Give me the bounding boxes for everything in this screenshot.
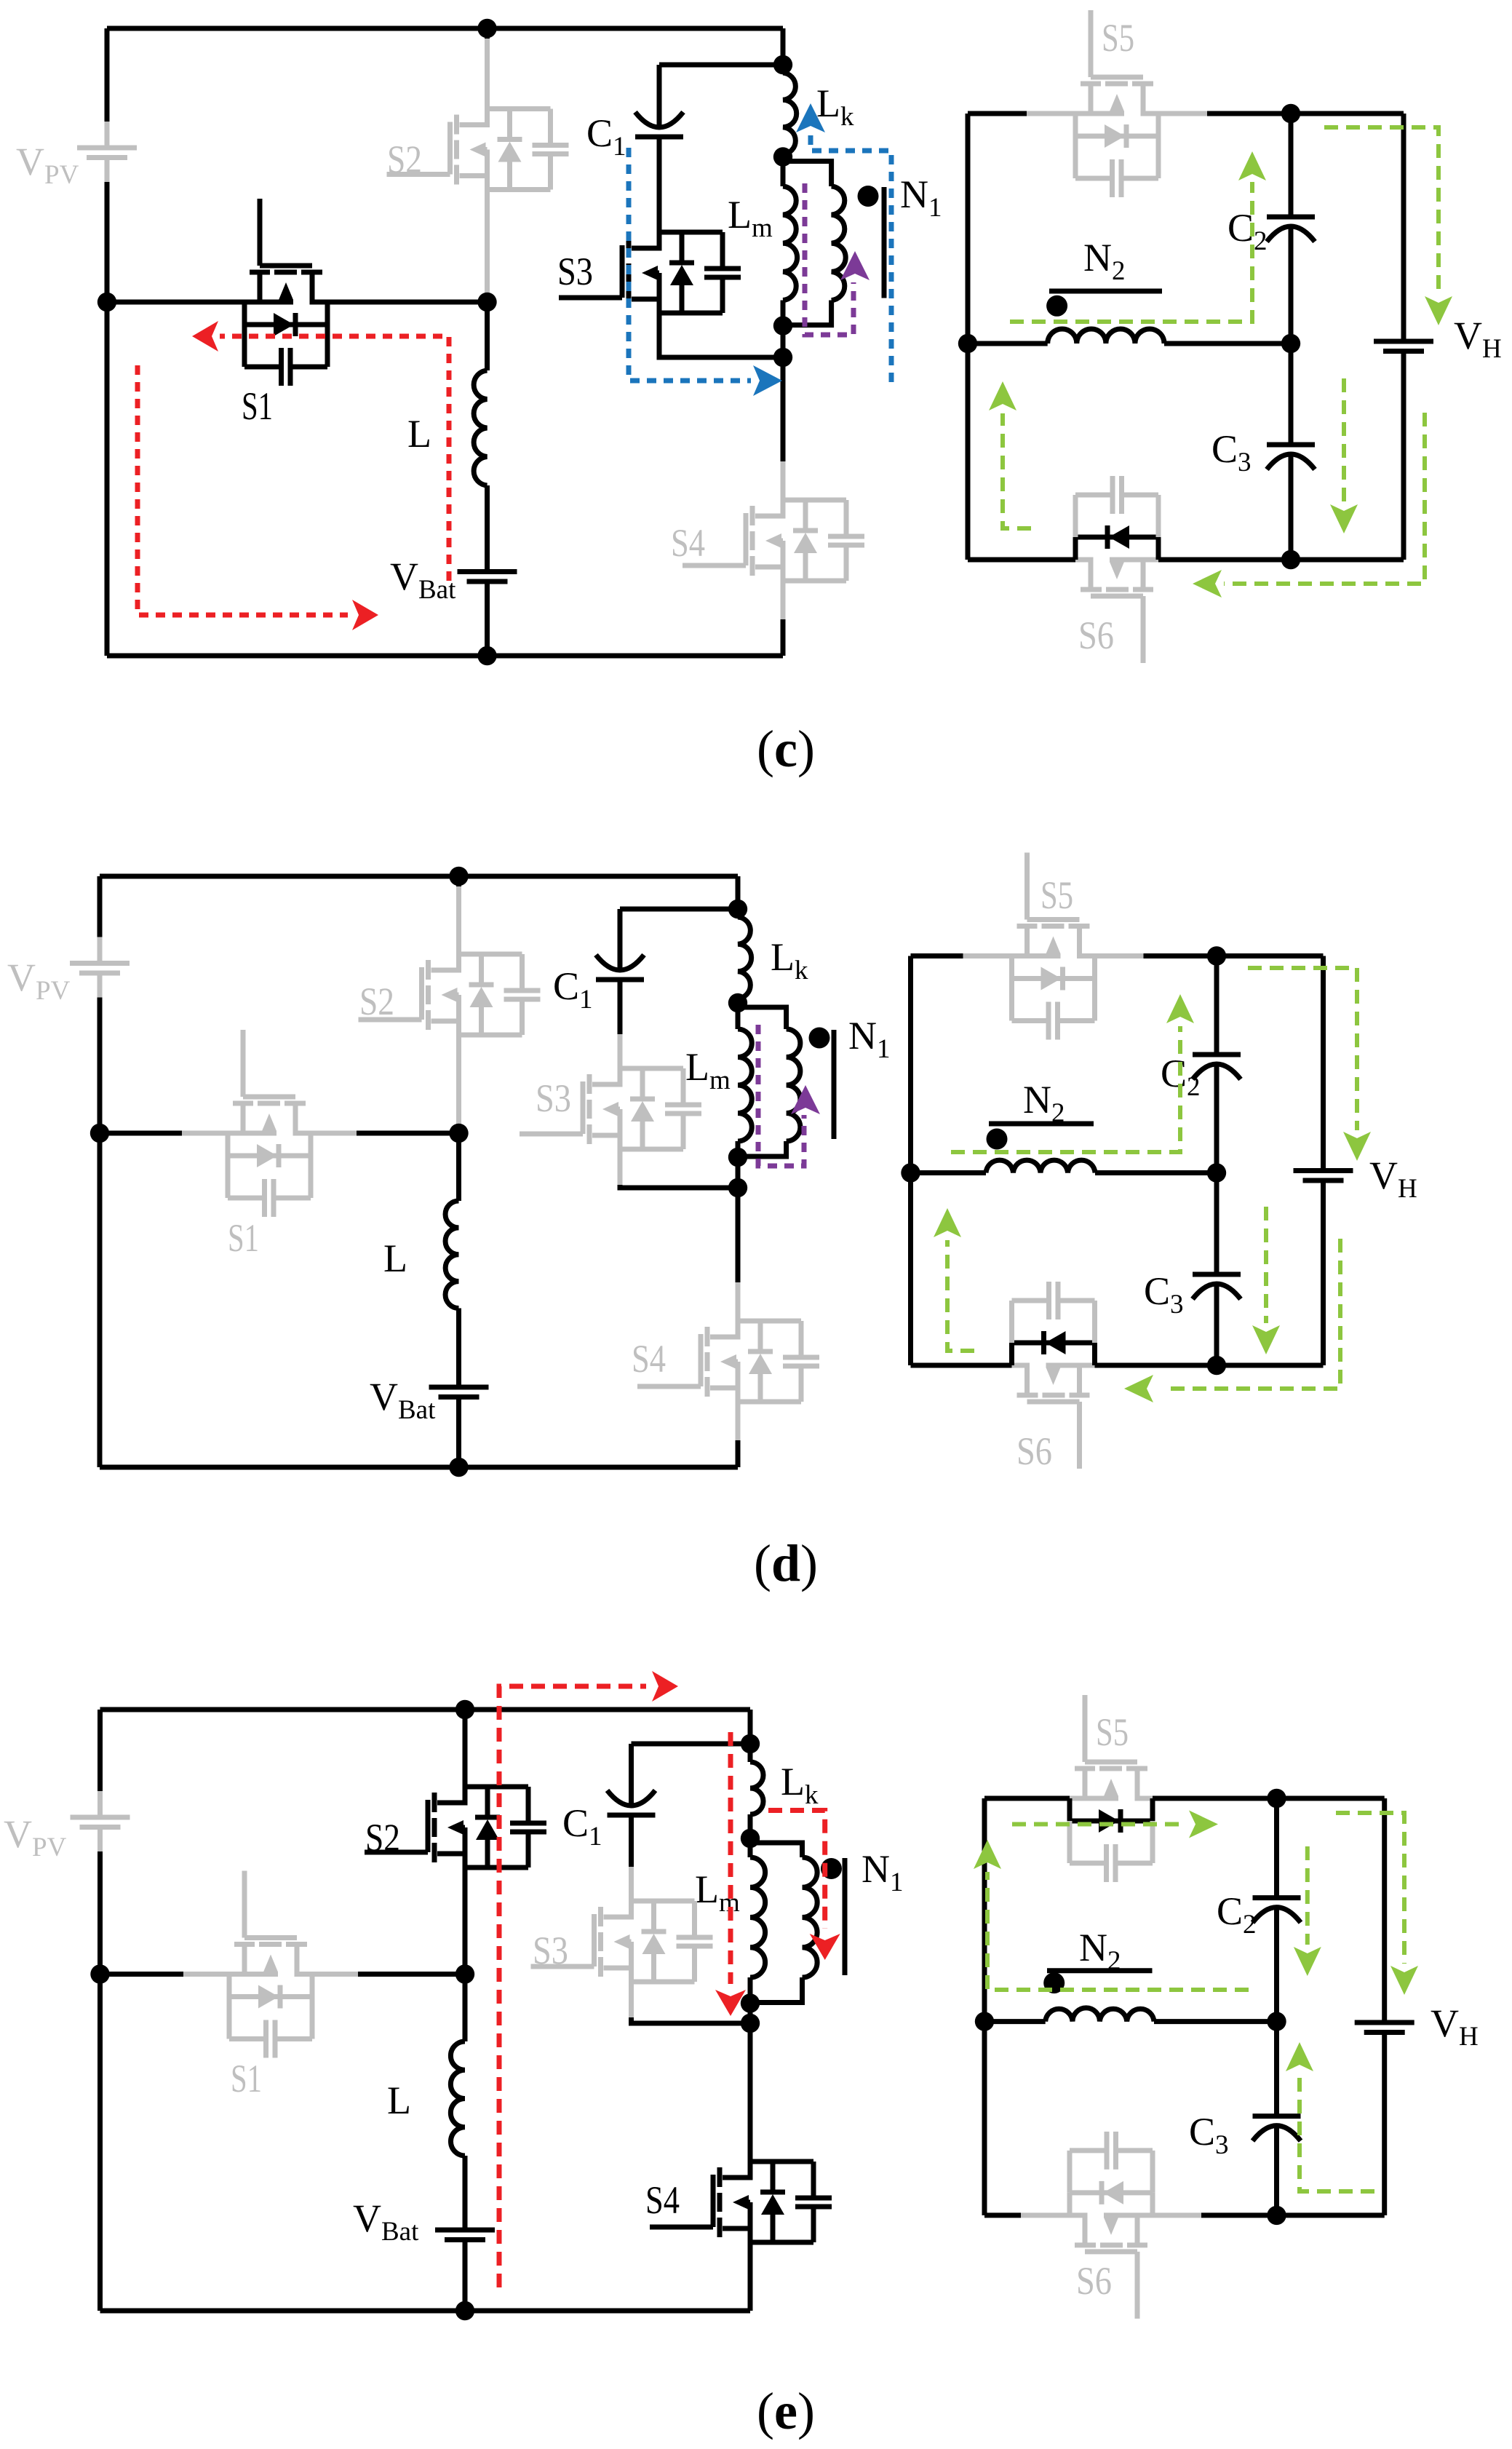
wire C3 top lead	[1214, 1173, 1219, 1275]
transistor S2 parasitic capacitor	[548, 109, 553, 146]
wire left rail lower	[105, 182, 110, 656]
transistor S1 channel	[241, 1030, 246, 1097]
transistor S5 parasitic capacitor	[1067, 1821, 1073, 1863]
wire mid rail left segment	[984, 2019, 1046, 2024]
wire C2 top lead	[1214, 956, 1219, 1055]
wire C3 to bottom	[1214, 1285, 1219, 1365]
wire mid rail right segment	[1095, 1170, 1217, 1175]
current path green bottom return (d)	[1165, 1239, 1340, 1389]
node Lk/Lm junction	[741, 1829, 760, 1848]
node C2 top	[1207, 946, 1226, 965]
wire left rail lower	[98, 998, 103, 1468]
node left mid	[901, 1163, 920, 1182]
winding N2	[986, 1160, 1095, 1172]
svg-text:S6: S6	[1076, 2259, 1112, 2303]
svg-text:S5: S5	[1096, 1710, 1129, 1754]
wire top rail to corner	[1217, 953, 1324, 958]
wire mid rail left	[100, 1972, 184, 1977]
current path green C3 down (c)	[1342, 378, 1346, 502]
wire C2 to mid	[1274, 1908, 1279, 2022]
battery V_PV	[105, 122, 110, 148]
wire battery to bottom rail	[463, 2240, 468, 2311]
current path green VH loop (d)	[1248, 968, 1357, 1130]
transistor S6 channel	[1077, 1402, 1082, 1469]
transistor S4 parasitic capacitor	[799, 1321, 804, 1357]
inductor L	[445, 1201, 458, 1309]
transistor S5 body diode	[1073, 114, 1078, 136]
transistor S6 parasitic capacitor	[1150, 2151, 1155, 2193]
node Lk/Lm junction	[728, 993, 747, 1012]
polarity dot N2	[1043, 1972, 1065, 1993]
svg-text:L: L	[383, 1237, 407, 1280]
wire C3 to bottom	[1289, 455, 1294, 560]
svg-text:S3: S3	[536, 1076, 571, 1120]
winding N1	[750, 1843, 803, 1857]
current path green C3 up (e)	[1300, 2073, 1374, 2191]
current path red loop upper (c)	[220, 336, 449, 581]
wire top-right corner down to node	[781, 28, 786, 65]
transistor S1 body diode	[242, 302, 247, 325]
svg-text:L: L	[387, 2079, 411, 2122]
battery V_H	[1374, 339, 1433, 344]
wire C3 top lead	[1274, 2022, 1279, 2116]
svg-text:S4: S4	[632, 1337, 666, 1381]
winding N2	[1048, 329, 1164, 344]
wire L top lead	[485, 302, 490, 370]
wire C2 to mid	[1214, 1065, 1219, 1173]
node top-left of mid rail	[90, 1124, 109, 1143]
transistor S1 channel	[242, 1871, 247, 1938]
node left mid	[958, 334, 977, 353]
transistor S4 body diode	[783, 498, 846, 503]
wire S2 source	[463, 1867, 468, 1974]
node Lk top	[728, 900, 747, 918]
transistor S1 parasitic capacitor	[227, 1997, 232, 2039]
wire mid rail left	[100, 1131, 182, 1136]
inductor Lk	[736, 909, 741, 917]
core bar N2	[1049, 289, 1162, 294]
current path green C2 down (e)	[1305, 1846, 1310, 1945]
wire S3 source to node	[618, 1149, 623, 1185]
wire top-right corner down to node	[748, 1710, 753, 1744]
core bar N1	[832, 1030, 837, 1139]
wire node to S3 junction	[781, 326, 786, 357]
current path green S5 diode (e)	[1012, 1822, 1186, 1827]
current path green left up (d)	[947, 1240, 974, 1351]
inductor Lm	[748, 1838, 753, 1857]
battery V_H	[1355, 2020, 1414, 2025]
wire S4 source	[748, 2242, 753, 2311]
current path green left up (c)	[1003, 413, 1031, 528]
battery V_H	[1294, 1168, 1353, 1173]
capacitor C1	[608, 1813, 656, 1818]
wire bottom rail right	[1095, 1363, 1217, 1368]
transistor S5 body diode	[1067, 1798, 1073, 1821]
wire mid rail left	[107, 300, 244, 305]
capacitor C1	[635, 135, 683, 140]
current path green N2 up (d)	[951, 1026, 1180, 1152]
node center mid	[1267, 2012, 1286, 2031]
wire mid rail right	[327, 300, 488, 305]
capacitor C1	[596, 977, 644, 983]
svg-text:S2: S2	[359, 980, 394, 1023]
current path green C3 down (d)	[1264, 1207, 1268, 1323]
node S3 source junction	[773, 348, 792, 367]
core bar N1	[843, 1858, 848, 1975]
svg-text:S1: S1	[242, 384, 273, 428]
capacitor C3	[1253, 2113, 1301, 2119]
node bottom rail junction	[455, 2301, 474, 2320]
node top-left of mid rail	[98, 293, 116, 311]
current path green N2 up (c)	[1010, 182, 1252, 322]
wire S4 drain	[781, 357, 786, 461]
transistor S5 body diode	[1009, 956, 1014, 979]
node Lk/Lm junction	[773, 147, 792, 166]
wire L to battery	[463, 2156, 468, 2230]
wire left rail	[982, 1798, 987, 2215]
transistor S5 channel	[1089, 10, 1094, 77]
polarity dot N1	[821, 1858, 842, 1879]
wire S4 source	[736, 1402, 741, 1440]
node Lm bottom	[741, 1993, 760, 2012]
core bar N2	[1047, 1968, 1153, 1973]
node C2 top	[1267, 1789, 1286, 1808]
node bottom rail junction	[449, 1458, 468, 1477]
wire mid rail left segment	[968, 341, 1048, 346]
current path blue N1-Lk (c)	[811, 135, 891, 382]
current path blue C1 (c)	[629, 148, 751, 381]
current path red loop lower (c)	[138, 365, 348, 615]
svg-text:S6: S6	[1016, 1429, 1052, 1473]
wire C1 to S3 drain	[629, 1815, 634, 1867]
wire battery to bottom rail	[485, 582, 490, 656]
wire C3 top lead	[1289, 344, 1294, 445]
wire top rail to corner	[1277, 1796, 1385, 1801]
transistor S4 body diode	[738, 1319, 801, 1324]
current path green bottom return (c)	[1224, 413, 1425, 584]
transistor S6 body diode	[1092, 1343, 1097, 1365]
svg-text:S3: S3	[557, 250, 593, 293]
wire C1 to S3 drain	[618, 980, 623, 1034]
transistor S4 channel	[699, 1334, 704, 1386]
wire top rail	[107, 26, 783, 31]
wire top rail left	[984, 1796, 1070, 1801]
transistor S2 channel	[426, 1800, 431, 1852]
transistor S3 parasitic capacitor	[681, 1068, 686, 1105]
transistor S4 body diode	[750, 2159, 813, 2164]
current path green VH down (e)	[1336, 1813, 1404, 1964]
wire top rail right	[1153, 1796, 1277, 1801]
wire S2 source	[456, 1035, 461, 1124]
transistor S6 channel	[1141, 596, 1146, 663]
wire L top lead	[463, 1974, 468, 2042]
polarity dot N1	[809, 1028, 830, 1049]
winding N2	[1046, 2008, 1154, 2022]
wire C1 top branch	[632, 1742, 751, 1747]
svg-text:(c): (c)	[757, 720, 815, 778]
transistor S2 body diode	[465, 1785, 528, 1790]
wire top rail left	[911, 953, 963, 958]
svg-text:S5: S5	[1041, 873, 1073, 917]
transistor S1 channel	[258, 199, 263, 266]
polarity dot N1	[858, 186, 879, 207]
wire top rail right	[1158, 111, 1207, 116]
capacitor C3	[1193, 1272, 1241, 1277]
node Lk top	[741, 1734, 760, 1753]
inductor Lm	[736, 1003, 741, 1029]
wire S4 drain	[736, 1188, 741, 1282]
wire top rail to corner	[1291, 111, 1404, 116]
inductor L	[450, 2041, 465, 2156]
transistor S3 body diode	[620, 1066, 683, 1071]
svg-text:S4: S4	[671, 521, 705, 565]
wire left rail	[908, 956, 913, 1366]
capacitor C2	[1253, 1895, 1301, 1900]
wire S3 source to node	[659, 313, 783, 357]
transistor S6 body diode	[1150, 2193, 1155, 2215]
node S2 drain at top rail	[449, 867, 468, 886]
transistor S2 channel	[447, 122, 453, 175]
node center mid	[1281, 334, 1300, 353]
node bottom center	[1281, 550, 1300, 569]
node mid rail / L junction	[455, 1964, 474, 1983]
svg-text:(e): (e)	[757, 2382, 815, 2440]
wire right rail upper	[1401, 114, 1406, 341]
svg-text:S1: S1	[228, 1216, 259, 1260]
transistor S2 body diode	[488, 106, 551, 111]
wire right rail upper	[1321, 956, 1326, 1171]
node Lk top	[773, 55, 792, 74]
wire C1 top branch	[659, 63, 783, 68]
wire L to battery	[456, 1309, 461, 1388]
wire top rail right	[1095, 953, 1144, 958]
wire C2 top lead	[1274, 1798, 1279, 1898]
node center mid	[1207, 1163, 1226, 1182]
svg-text:S2: S2	[365, 1816, 400, 1859]
node left mid	[975, 2012, 994, 2031]
wire bottom rail to corner	[1217, 1363, 1324, 1368]
transistor S5 channel	[1024, 853, 1030, 920]
wire node to S3 junction	[748, 2004, 753, 2024]
node Lm bottom	[773, 316, 792, 335]
svg-text:S1: S1	[231, 2057, 262, 2100]
wire bottom rail to corner	[1277, 2212, 1385, 2218]
node bottom rail junction	[477, 646, 496, 665]
wire top rail left	[968, 111, 1027, 116]
svg-text:L: L	[407, 412, 431, 456]
wire node to S3 junction	[736, 1157, 741, 1188]
wire bottom rail left	[911, 1363, 1012, 1368]
wire S4 drain	[748, 2023, 753, 2162]
transistor S6 parasitic capacitor	[1156, 495, 1161, 537]
wire battery to bottom rail	[456, 1397, 461, 1468]
transistor S1 parasitic capacitor	[226, 1156, 231, 1198]
wire bottom rail	[100, 2309, 751, 2314]
transistor S2 parasitic capacitor	[520, 954, 525, 991]
wire top rail	[100, 1707, 751, 1712]
node mid rail / L junction	[449, 1124, 468, 1143]
transistor S5 channel	[1083, 1695, 1088, 1762]
transistor S3 parasitic capacitor	[692, 1901, 697, 1937]
current path purple Lm (c)	[805, 183, 854, 335]
core bar N1	[882, 187, 887, 298]
wire S2 drain	[456, 876, 461, 886]
svg-text:S2: S2	[387, 138, 422, 181]
transistor S3 channel	[620, 245, 625, 298]
transistor S6 parasitic capacitor	[1092, 1301, 1097, 1343]
wire S4 source	[781, 581, 786, 619]
winding N1	[738, 1007, 787, 1029]
transistor S2 body diode	[459, 952, 522, 957]
wire L top lead	[456, 1133, 461, 1201]
node bottom center	[1207, 1356, 1226, 1375]
svg-text:S3: S3	[533, 1929, 568, 1972]
wire left rail upper	[98, 876, 103, 937]
node bottom center	[1267, 2206, 1286, 2225]
wire bottom rail right	[1158, 557, 1291, 563]
node S3 source junction	[728, 1178, 747, 1197]
battery V_PV	[98, 1791, 103, 1817]
wire C2 to mid	[1289, 227, 1294, 344]
wire C1 top branch	[620, 907, 738, 912]
transistor S3 body diode	[659, 230, 723, 235]
transistor S3 channel	[592, 1914, 597, 1966]
transistor S5 parasitic capacitor	[1009, 979, 1014, 1021]
current path red main loop (e)	[499, 1686, 646, 2287]
wire right rail lower	[1401, 352, 1406, 560]
transistor S3 body diode	[632, 1899, 695, 1904]
wire bottom rail	[100, 1465, 738, 1470]
current path green VH loop (c)	[1324, 127, 1439, 295]
transistor S2 parasitic capacitor	[526, 1787, 531, 1823]
transistor S5 parasitic capacitor	[1073, 136, 1078, 178]
battery V_Bat	[435, 2228, 495, 2233]
battery V_PV	[98, 937, 103, 964]
core bar N2	[989, 1122, 1094, 1127]
wire C2 top lead	[1289, 114, 1294, 217]
transistor S4 parasitic capacitor	[844, 500, 849, 536]
wire bottom rail left	[984, 2212, 1021, 2218]
transistor S2 channel	[419, 967, 424, 1020]
wire top-right corner down to node	[736, 876, 741, 909]
wire S2 source	[485, 190, 490, 294]
svg-text:(d): (d)	[754, 1534, 818, 1592]
node C2 top	[1281, 104, 1300, 123]
transistor S1 body diode	[226, 1133, 231, 1156]
inductor Lm	[781, 157, 786, 187]
wire left rail lower	[98, 1851, 103, 2311]
node S2 drain at top rail	[455, 1700, 474, 1719]
svg-text:S5: S5	[1102, 16, 1134, 60]
battery V_Bat	[458, 569, 517, 574]
wire S2 drain	[485, 28, 490, 39]
transistor S4 channel	[744, 513, 749, 565]
transistor S4 parasitic capacitor	[811, 2162, 816, 2198]
wire bottom rail right	[1153, 2212, 1201, 2218]
wire mid rail right segment	[1154, 2019, 1277, 2024]
capacitor C2	[1193, 1052, 1241, 1057]
svg-text:S6: S6	[1078, 614, 1114, 657]
node S2 drain at top rail	[477, 19, 496, 38]
transistor S4 channel	[711, 2175, 716, 2227]
battery V_Bat	[429, 1385, 489, 1390]
capacitor C3	[1267, 442, 1315, 448]
transistor S6 channel	[1135, 2252, 1140, 2319]
inductor L	[474, 370, 487, 485]
inductor Lk	[781, 65, 786, 73]
transistor S3 parasitic capacitor	[720, 232, 725, 269]
current path green left up (e)	[987, 1872, 1249, 1990]
wire L to battery	[485, 485, 490, 572]
wire right rail lower	[1382, 2033, 1387, 2215]
svg-text:S4: S4	[645, 2178, 680, 2222]
current path purple Lm (d)	[758, 1025, 804, 1166]
node top-left of mid rail	[90, 1964, 109, 1983]
wire C3 to bottom	[1274, 2127, 1279, 2215]
wire mid rail right	[312, 1972, 358, 1977]
current path red N1 down (e)	[768, 1811, 825, 1929]
transistor S1 body diode	[227, 1974, 232, 1997]
wire S2 drain	[463, 1710, 468, 1787]
node S3 source junction	[741, 2014, 760, 2033]
wire S3 source to node	[629, 1982, 634, 2017]
wire C1 to S3 drain	[657, 137, 662, 232]
wire mid rail right	[311, 1131, 357, 1136]
wire left rail upper	[105, 28, 110, 122]
polarity dot N2	[987, 1129, 1008, 1150]
current path red Lm down (e)	[728, 1732, 733, 1984]
transistor S3 channel	[581, 1081, 586, 1134]
transistor S6 body diode	[1156, 537, 1161, 560]
capacitor C2	[1267, 215, 1315, 220]
polarity dot N2	[1046, 295, 1067, 317]
inductor Lk	[748, 1744, 753, 1762]
wire bottom rail	[107, 654, 783, 659]
node mid rail / L junction	[477, 293, 496, 311]
wire left rail	[966, 114, 971, 560]
transistor S1 parasitic capacitor	[242, 325, 247, 367]
wire right rail upper	[1382, 1798, 1387, 2023]
wire right rail lower	[1321, 1180, 1326, 1365]
node Lm bottom	[728, 1148, 747, 1167]
wire mid rail right segment	[1164, 341, 1291, 346]
wire mid rail left segment	[911, 1170, 987, 1175]
wire top rail	[100, 874, 738, 879]
wire left rail upper	[98, 1710, 103, 1791]
wire bottom rail to corner	[1291, 557, 1404, 563]
winding N1	[783, 162, 832, 187]
wire bottom rail left	[968, 557, 1075, 563]
